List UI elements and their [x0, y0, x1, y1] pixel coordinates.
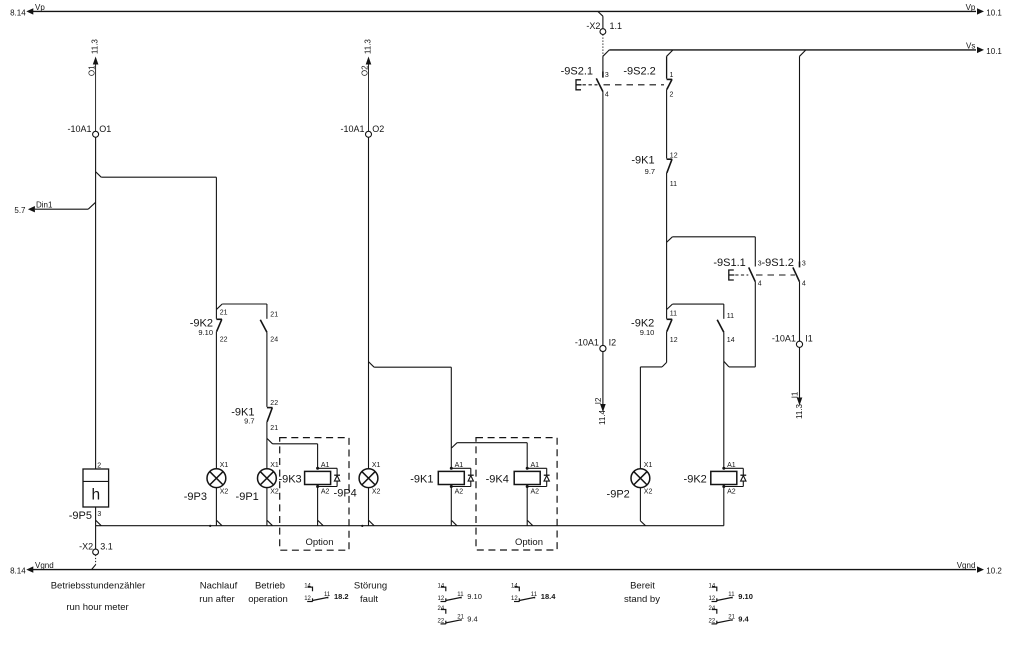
- svg-text:22: 22: [270, 400, 278, 407]
- svg-text:10.1: 10.1: [986, 47, 1002, 56]
- relay coil -9K3: [305, 471, 331, 484]
- svg-text:14: 14: [727, 337, 735, 344]
- svg-text:4: 4: [802, 281, 806, 288]
- junction branch to -9K3: [267, 439, 272, 444]
- svg-text:10.2: 10.2: [986, 567, 1002, 576]
- contact -9K2 21-22: [216, 318, 222, 320]
- svg-text:9.10: 9.10: [467, 592, 482, 601]
- svg-text:22: 22: [220, 337, 228, 344]
- svg-text:9.10: 9.10: [640, 328, 655, 337]
- node I2 sheet arrow: [600, 404, 606, 412]
- terminal -10A1 O1: [93, 131, 99, 137]
- svg-text:A1: A1: [727, 462, 736, 469]
- wire column1: [95, 137, 97, 469]
- svg-text:O2: O2: [372, 124, 384, 134]
- lamp -9P1: [258, 469, 277, 488]
- svg-text:h: h: [91, 487, 100, 504]
- svg-text:3: 3: [605, 72, 609, 79]
- svg-text:-9P3: -9P3: [184, 491, 207, 503]
- svg-text:9.4: 9.4: [738, 615, 749, 624]
- actuator E -9S1: [729, 270, 735, 280]
- svg-text:A2: A2: [531, 489, 540, 496]
- svg-text:A2: A2: [455, 489, 464, 496]
- junction branch 11-14: [667, 304, 673, 309]
- svg-text:18.4: 18.4: [541, 592, 556, 601]
- option box 2: [476, 438, 557, 550]
- svg-text:X1: X1: [644, 462, 653, 469]
- svg-text:Vp: Vp: [966, 3, 976, 12]
- svg-text:X2: X2: [372, 488, 381, 495]
- svg-text:Vs: Vs: [966, 41, 975, 50]
- svg-text:1: 1: [670, 72, 674, 79]
- svg-text:9.7: 9.7: [645, 167, 655, 176]
- svg-text:-9S1.1: -9S1.1: [713, 257, 745, 269]
- junction branch to -9K4: [452, 443, 458, 448]
- wire from Vp to -X2: [598, 11, 603, 16]
- svg-text:-9S2.1: -9S2.1: [561, 66, 593, 78]
- wire to I1: [799, 282, 801, 342]
- lamp -9P4: [359, 469, 378, 488]
- svg-text:X2: X2: [270, 488, 279, 495]
- node O1 sheet arrow: [93, 57, 99, 65]
- svg-text:10.1: 10.1: [986, 9, 1002, 18]
- svg-text:Vgnd: Vgnd: [35, 561, 54, 570]
- svg-text:4: 4: [758, 281, 762, 288]
- node I1 sheet arrow: [797, 398, 803, 406]
- svg-text:1.1: 1.1: [610, 21, 623, 31]
- svg-text:X2: X2: [644, 488, 653, 495]
- svg-text:Störung: Störung: [354, 581, 387, 592]
- svg-text:-9K4: -9K4: [486, 474, 509, 486]
- wire to I2: [602, 92, 604, 346]
- svg-text:9.4: 9.4: [467, 615, 477, 624]
- svg-text:9.7: 9.7: [244, 417, 254, 426]
- svg-text:-9K2: -9K2: [684, 474, 707, 486]
- svg-text:I2: I2: [609, 338, 617, 348]
- junction branch to -9K2: [96, 172, 101, 177]
- svg-text:8.14: 8.14: [10, 567, 26, 576]
- svg-text:9.10: 9.10: [198, 328, 213, 337]
- svg-text:A2: A2: [727, 489, 736, 496]
- svg-text:21: 21: [270, 312, 278, 319]
- wire O2 down: [368, 137, 370, 469]
- relay coil -9K2: [711, 471, 737, 484]
- junction Vs start: [603, 50, 609, 56]
- svg-text:11.3: 11.3: [795, 403, 804, 419]
- junction branch 21-24: [217, 304, 223, 309]
- svg-text:-9P1: -9P1: [236, 491, 259, 503]
- svg-text:Option: Option: [515, 537, 543, 548]
- svg-text:11: 11: [670, 181, 677, 188]
- junction to -9S1.1 leg: [724, 361, 729, 367]
- svg-text:-9P5: -9P5: [69, 510, 92, 522]
- svg-text:Vgnd: Vgnd: [957, 561, 976, 570]
- wire bottom rail: [96, 525, 724, 527]
- svg-text:X1: X1: [372, 462, 381, 469]
- svg-text:3: 3: [802, 261, 806, 268]
- svg-text:-10A1: -10A1: [772, 333, 796, 343]
- svg-text:-10A1: -10A1: [67, 124, 91, 134]
- svg-text:A2: A2: [321, 489, 330, 496]
- terminal -10A1 O2: [366, 131, 372, 137]
- terminal -X2 3.1: [93, 549, 99, 555]
- junction from Vs: [800, 50, 806, 56]
- svg-text:18.2: 18.2: [334, 592, 349, 601]
- svg-text:21: 21: [270, 425, 278, 432]
- wire to lamp -9P3: [215, 332, 217, 469]
- svg-text:8.14: 8.14: [10, 8, 26, 17]
- svg-text:-X2: -X2: [586, 21, 600, 31]
- svg-text:Vp: Vp: [35, 3, 45, 12]
- svg-text:Din1: Din1: [36, 200, 53, 209]
- svg-text:21: 21: [728, 614, 735, 620]
- svg-text:A1: A1: [531, 462, 540, 469]
- junction from Vs: [667, 50, 673, 56]
- junction branch to relays: [369, 362, 374, 367]
- svg-text:-10A1: -10A1: [575, 338, 599, 348]
- svg-text:Bereit: Bereit: [630, 581, 655, 592]
- svg-text:11.4: 11.4: [598, 409, 607, 425]
- wire Vs bus: [609, 49, 976, 51]
- wire Vp bus: [33, 10, 976, 12]
- svg-text:Option: Option: [306, 537, 334, 548]
- lamp -9P3: [207, 469, 226, 488]
- svg-text:-X2: -X2: [79, 541, 93, 551]
- svg-text:operation: operation: [248, 594, 288, 605]
- svg-text:11.3: 11.3: [91, 39, 100, 55]
- lamp -9P2: [631, 469, 650, 488]
- svg-text:11: 11: [531, 592, 538, 598]
- svg-text:Nachlauf: Nachlauf: [200, 581, 238, 592]
- wire O1 down: [95, 65, 97, 132]
- svg-text:9.10: 9.10: [738, 592, 753, 601]
- svg-text:I2: I2: [594, 397, 603, 404]
- svg-text:O1: O1: [87, 65, 96, 76]
- node O2 sheet arrow: [366, 57, 372, 65]
- svg-text:21: 21: [220, 310, 228, 317]
- svg-text:11: 11: [727, 313, 734, 320]
- svg-text:-10A1: -10A1: [340, 124, 364, 134]
- svg-text:I1: I1: [790, 391, 799, 398]
- wire 24 down: [266, 332, 268, 407]
- wire Din1: [35, 208, 88, 210]
- svg-text:Betriebsstundenzähler: Betriebsstundenzähler: [51, 581, 146, 592]
- svg-text:fault: fault: [360, 594, 378, 605]
- wire to lamp -9P2: [666, 332, 668, 363]
- svg-text:O1: O1: [99, 124, 111, 134]
- svg-text:run hour meter: run hour meter: [66, 602, 128, 613]
- svg-text:run after: run after: [199, 594, 234, 605]
- wire Vgnd bus: [33, 569, 976, 571]
- svg-text:11: 11: [670, 310, 677, 317]
- svg-text:12: 12: [670, 337, 678, 344]
- svg-text:-9K1: -9K1: [410, 474, 433, 486]
- svg-text:5.7: 5.7: [14, 206, 26, 215]
- svg-text:X2: X2: [220, 488, 229, 495]
- actuator E -9S2: [576, 80, 582, 90]
- svg-text:-9K3: -9K3: [278, 474, 301, 486]
- svg-text:Betrieb: Betrieb: [255, 581, 285, 592]
- svg-text:O2: O2: [360, 65, 369, 76]
- svg-text:12: 12: [670, 152, 678, 159]
- svg-text:-9P2: -9P2: [607, 489, 630, 501]
- svg-text:2: 2: [670, 91, 674, 98]
- svg-text:A1: A1: [455, 462, 464, 469]
- relay coil -9K1: [438, 471, 464, 484]
- svg-text:X1: X1: [220, 462, 229, 469]
- svg-text:stand by: stand by: [624, 594, 660, 605]
- svg-text:11: 11: [457, 592, 464, 598]
- svg-text:21: 21: [457, 614, 464, 620]
- svg-text:-9S1.2: -9S1.2: [761, 257, 793, 269]
- svg-text:X1: X1: [270, 462, 279, 469]
- svg-text:I1: I1: [805, 333, 813, 343]
- svg-text:-9K1: -9K1: [631, 155, 654, 167]
- svg-text:3.1: 3.1: [100, 541, 113, 551]
- wire -9K2 drop: [215, 177, 217, 319]
- contact -9K1 22-21: [267, 407, 273, 409]
- svg-text:11: 11: [728, 592, 735, 598]
- svg-text:11.3: 11.3: [364, 39, 373, 55]
- contact -9K2 21-24: [260, 320, 267, 333]
- svg-text:11: 11: [324, 592, 331, 598]
- wire below meter: [95, 507, 97, 549]
- junction to bottom rail: [96, 520, 101, 525]
- wire to lamp -9P1: [266, 422, 268, 469]
- svg-text:-9S2.2: -9S2.2: [623, 66, 655, 78]
- svg-text:24: 24: [270, 337, 278, 344]
- junction branch to -9S1.1: [667, 237, 673, 242]
- svg-text:4: 4: [605, 91, 609, 98]
- svg-text:3: 3: [97, 511, 101, 518]
- svg-text:A1: A1: [321, 462, 330, 469]
- option box 1: [280, 438, 349, 551]
- relay coil -9K4: [514, 471, 540, 484]
- svg-text:-9P4: -9P4: [334, 488, 357, 500]
